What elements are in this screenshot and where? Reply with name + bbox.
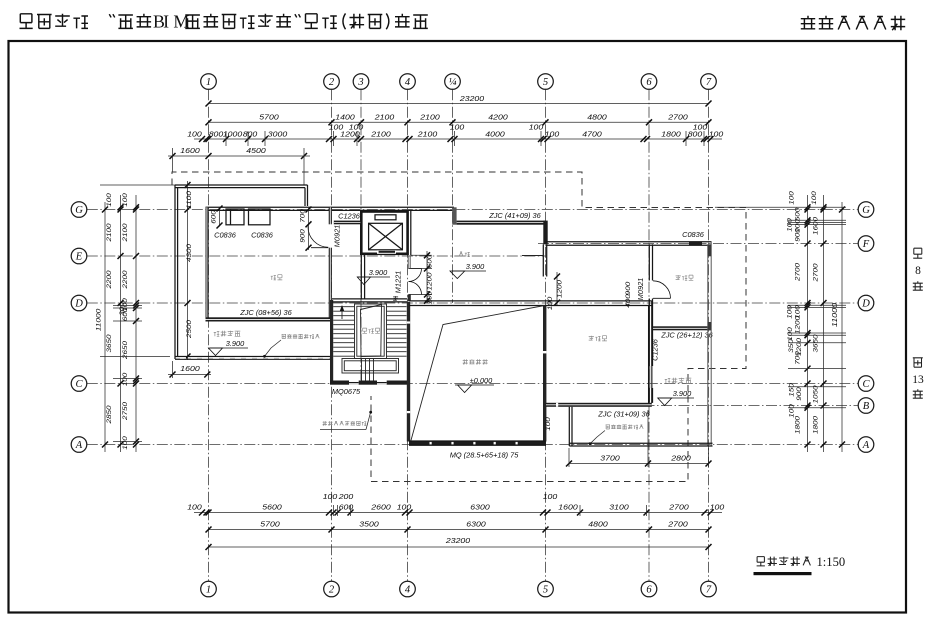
- svg-text:C0836: C0836: [214, 231, 237, 240]
- svg-text:100: 100: [710, 503, 725, 512]
- left dimension column axis spans: [120, 195, 122, 452]
- svg-text:7: 7: [706, 585, 712, 596]
- horizontal axis line A: [87, 444, 858, 446]
- right dimension column axis spans: [823, 195, 825, 452]
- svg-text:100: 100: [397, 503, 412, 512]
- window C1236 east wing: [649, 366, 651, 388]
- study north-east step wall at axis 5: [543, 221, 547, 245]
- study west wall below F: [542, 244, 544, 276]
- svg-text:3.900: 3.900: [226, 339, 245, 348]
- svg-text:1050: 1050: [813, 385, 820, 404]
- svg-text:2700: 2700: [667, 112, 688, 121]
- room label master bedroom: [589, 336, 607, 341]
- svg-text:700: 700: [795, 351, 802, 365]
- svg-text:100: 100: [547, 296, 554, 310]
- svg-text:4800: 4800: [587, 112, 606, 121]
- svg-text:800: 800: [243, 129, 258, 138]
- svg-text:100: 100: [427, 290, 434, 304]
- study interior stub line: [522, 255, 543, 257]
- svg-text:100: 100: [187, 129, 202, 138]
- window C0836 bathroom: [689, 241, 702, 245]
- axis bubble B right: [858, 398, 874, 414]
- svg-text:M1221: M1221: [394, 271, 403, 294]
- svg-text:4: 4: [405, 77, 411, 88]
- stair treads right flight: [387, 306, 407, 308]
- svg-text:ZJC (08+56) 36: ZJC (08+56) 36: [239, 308, 292, 317]
- elevator shaft walls: [361, 212, 407, 254]
- right extension lines: [788, 219, 846, 221]
- balcony label lower right: [665, 378, 692, 384]
- svg-text:C0836: C0836: [251, 231, 274, 240]
- svg-text:6: 6: [646, 77, 652, 88]
- left bottom dimension 1600: [168, 374, 211, 376]
- axis bubble D right: [858, 295, 874, 311]
- bottom dimension row total 23200: [209, 546, 709, 548]
- svg-text:100: 100: [789, 191, 796, 205]
- axis bubble 1 bottom: [201, 581, 217, 597]
- svg-text:3.900: 3.900: [466, 262, 485, 271]
- svg-text:900: 900: [795, 228, 802, 242]
- opening dimension 1200 study: [556, 272, 558, 305]
- svg-text:300: 300: [119, 302, 126, 316]
- living room level mark 0.000: [455, 384, 494, 386]
- svg-text:2100: 2100: [122, 223, 129, 243]
- horizontal axis line F: [538, 243, 858, 245]
- svg-text:2600: 2600: [370, 503, 391, 512]
- page number block: [913, 248, 922, 258]
- bedroom west wall: [206, 207, 209, 321]
- svg-text:7: 7: [706, 77, 712, 88]
- svg-text:6: 6: [646, 585, 652, 596]
- svg-text:C1236: C1236: [651, 338, 660, 361]
- bedroom south wall ZJC(08+56)36: [206, 317, 333, 321]
- svg-text:2200: 2200: [106, 270, 113, 290]
- bathroom west wall: [648, 244, 650, 280]
- horizontal axis line D: [87, 302, 858, 304]
- svg-text:3650: 3650: [813, 334, 820, 353]
- svg-text:600: 600: [427, 254, 434, 268]
- svg-text:6300: 6300: [470, 503, 489, 512]
- balcony parapet bottom edge: [175, 356, 332, 358]
- projection line label: [323, 421, 367, 425]
- curtain wall MQ south: [409, 441, 546, 445]
- svg-text:11000: 11000: [830, 303, 839, 327]
- top dimension row detail: [194, 138, 722, 140]
- room label bathroom: [676, 275, 694, 280]
- svg-text:3.900: 3.900: [673, 389, 692, 398]
- svg-text:ZJC (31+09) 36: ZJC (31+09) 36: [597, 410, 650, 419]
- stair west wall: [330, 300, 333, 384]
- svg-text:1600: 1600: [180, 146, 199, 155]
- svg-text:ZJC (26+12) 36: ZJC (26+12) 36: [660, 331, 713, 340]
- svg-text:2650: 2650: [122, 340, 129, 360]
- svg-text:400: 400: [625, 294, 632, 308]
- svg-text:4500: 4500: [246, 146, 265, 155]
- window C0836 right: [249, 209, 271, 225]
- vertical axis line 5: [545, 89, 547, 581]
- railing label top-left: [282, 334, 320, 338]
- svg-text:A: A: [862, 440, 870, 451]
- svg-text:700: 700: [300, 209, 307, 223]
- step wall at axis 1/4: [452, 207, 456, 224]
- svg-text:1200: 1200: [427, 272, 434, 291]
- room label living room void: [463, 359, 488, 364]
- axis bubble G right: [858, 202, 874, 218]
- axis bubble E left: [71, 248, 87, 264]
- svg-text:900: 900: [625, 281, 632, 295]
- door M0921 bedroom: [328, 224, 332, 247]
- svg-text:2200: 2200: [122, 270, 129, 290]
- stair up arrow: [341, 306, 343, 319]
- svg-text:11000: 11000: [96, 308, 103, 331]
- axis bubble A right: [858, 437, 874, 453]
- svg-text:D: D: [861, 299, 870, 310]
- stair landing box: [342, 359, 399, 374]
- svg-text:2100: 2100: [419, 112, 440, 121]
- svg-text:4300: 4300: [186, 243, 193, 262]
- svg-text:2700: 2700: [668, 503, 689, 512]
- corridor east wall thin 600 segment: [407, 255, 409, 268]
- stair treads left flight: [333, 306, 354, 308]
- axis bubble 5 top: [538, 74, 554, 90]
- horizontal axis line E: [87, 255, 546, 257]
- horizontal axis line G: [87, 209, 858, 211]
- vertical axis line 3: [360, 89, 362, 386]
- bedroom north wall on axis G: [206, 206, 455, 208]
- axis bubble 4 top: [400, 74, 416, 90]
- svg-text:2700: 2700: [795, 262, 802, 282]
- axis bubble C left: [71, 376, 87, 392]
- axis bubble 5 bottom: [538, 581, 554, 597]
- stair flight in well: [361, 305, 382, 357]
- svg-text:800: 800: [209, 129, 224, 138]
- svg-text:E: E: [75, 252, 83, 263]
- svg-text:1600: 1600: [558, 503, 577, 512]
- elevator counterweight: [375, 215, 396, 220]
- svg-text:2: 2: [329, 77, 335, 88]
- svg-text:2700: 2700: [813, 263, 820, 283]
- svg-text:4000: 4000: [485, 129, 504, 138]
- svg-text:1600: 1600: [180, 364, 199, 373]
- top dimension row axis spans: [209, 121, 709, 123]
- svg-text:3500: 3500: [359, 520, 378, 529]
- bottom dimension row axis spans: [209, 529, 709, 531]
- axis bubble 7 bottom: [701, 581, 717, 597]
- svg-text:1200: 1200: [795, 315, 802, 334]
- svg-text:3100: 3100: [609, 503, 628, 512]
- svg-text:23200: 23200: [445, 536, 470, 545]
- vertical axis line 1: [208, 89, 210, 581]
- svg-text:1: 1: [206, 77, 211, 88]
- horizontal axis line B: [556, 405, 858, 407]
- svg-text:M0921: M0921: [333, 225, 342, 248]
- master bedroom east wall: [648, 306, 650, 404]
- left parapet dimension chain 1100 4300 2500: [187, 181, 189, 360]
- axis bubble 2 bottom: [324, 581, 340, 597]
- svg-text:4200: 4200: [488, 112, 507, 121]
- drawing title: [757, 557, 811, 566]
- study level mark 3.900: [452, 270, 486, 272]
- double door M1221: [409, 268, 422, 270]
- svg-text:2700: 2700: [667, 520, 688, 529]
- svg-text:1600: 1600: [813, 216, 820, 235]
- wall stub below door M1221: [408, 295, 411, 302]
- svg-text:1:150: 1:150: [817, 555, 846, 569]
- svg-text:600: 600: [211, 210, 218, 224]
- svg-text:C: C: [862, 379, 870, 390]
- balcony parapet top-left: [175, 184, 308, 186]
- lobby level mark 3.900: [357, 276, 390, 278]
- svg-text:100: 100: [545, 417, 552, 431]
- dimension 600 1200 100 at M1221: [426, 251, 428, 303]
- svg-text:M0921: M0921: [636, 278, 645, 301]
- top dimension row 1600 4500: [168, 155, 310, 157]
- right dimension column total 11000: [841, 202, 843, 452]
- svg-text:100: 100: [693, 123, 708, 132]
- svg-text:23200: 23200: [459, 94, 484, 103]
- svg-text:4: 4: [405, 585, 411, 596]
- living room east wall: [543, 306, 546, 442]
- svg-text:500: 500: [795, 207, 802, 221]
- bedroom east wall: [329, 207, 332, 321]
- left extension lines: [113, 305, 142, 307]
- east outer wall on axis 7: [707, 244, 709, 446]
- axis bubble F right: [858, 236, 874, 252]
- svg-text:100: 100: [789, 404, 796, 418]
- balcony parapet lower right: [568, 407, 570, 446]
- svg-text:4700: 4700: [582, 129, 601, 138]
- svg-text:2100: 2100: [374, 112, 395, 121]
- svg-text:100: 100: [811, 191, 818, 205]
- svg-text:G: G: [862, 205, 870, 216]
- svg-text:350: 350: [788, 339, 795, 353]
- axis bubble 4 bottom: [400, 581, 416, 597]
- header society name: [801, 16, 905, 30]
- svg-text:5700: 5700: [260, 520, 279, 529]
- svg-text:5: 5: [543, 77, 548, 88]
- svg-text:150: 150: [789, 383, 796, 397]
- svg-text:3000: 3000: [268, 129, 287, 138]
- svg-text:MQ (28.5+65+18) 75: MQ (28.5+65+18) 75: [450, 451, 520, 460]
- stair label down: [393, 296, 398, 300]
- vertical axis line 4: [407, 89, 409, 581]
- svg-text:±0.000: ±0.000: [470, 376, 493, 385]
- svg-text:D: D: [74, 299, 83, 310]
- svg-text:I: I: [163, 12, 169, 32]
- bathroom south wall ZJC(26+12)36: [653, 326, 712, 330]
- void diagonal lines: [411, 306, 545, 442]
- elevator door: [377, 250, 396, 253]
- axis bubble D left: [71, 295, 87, 311]
- svg-text:3: 3: [357, 77, 363, 88]
- window C1236 at elevator lobby: [334, 221, 361, 225]
- svg-text:900: 900: [300, 229, 307, 243]
- dimension 700 900 at door: [308, 208, 310, 250]
- axis bubble 1 top: [201, 74, 217, 90]
- svg-text:1400: 1400: [335, 112, 354, 121]
- window wall ZJC(41+09)36: [457, 221, 546, 225]
- svg-text:100: 100: [450, 123, 465, 132]
- svg-text:2850: 2850: [106, 405, 113, 425]
- dimension 600 at window: [219, 208, 221, 227]
- bathroom north wall on axis F: [649, 241, 712, 243]
- bottom dimension row detail: [194, 512, 722, 514]
- svg-text:100: 100: [709, 129, 724, 138]
- svg-text:1800: 1800: [795, 415, 802, 434]
- upper floor projection dashed outline: [172, 172, 746, 482]
- svg-text:5700: 5700: [259, 112, 278, 121]
- svg-text:1: 1: [206, 585, 211, 596]
- room label study: [459, 252, 470, 257]
- svg-text:5600: 5600: [262, 503, 281, 512]
- svg-text:ZJC (41+09) 36: ZJC (41+09) 36: [488, 211, 541, 220]
- door M0921 bathroom: [653, 297, 671, 299]
- axis bubble C right: [858, 376, 874, 392]
- vertical axis line 7: [708, 89, 710, 581]
- svg-text:1100: 1100: [186, 190, 193, 209]
- svg-text:13: 13: [912, 374, 924, 386]
- svg-text:A: A: [75, 440, 83, 451]
- stair south wall MQ0675: [330, 381, 410, 385]
- svg-text:6300: 6300: [466, 520, 485, 529]
- svg-text:1800: 1800: [813, 415, 820, 434]
- svg-text:C: C: [75, 379, 83, 390]
- svg-text:3.900: 3.900: [369, 268, 388, 277]
- svg-text:C0836: C0836: [682, 230, 705, 239]
- svg-text:100: 100: [187, 503, 202, 512]
- svg-text:900: 900: [796, 387, 803, 401]
- svg-text:100: 100: [122, 372, 129, 386]
- axis bubble A left: [71, 437, 87, 453]
- elevator cab with cross: [369, 223, 403, 250]
- top dimension row total 23200: [209, 103, 709, 105]
- svg-text:MQ0675: MQ0675: [332, 387, 361, 396]
- svg-text:2750: 2750: [122, 401, 129, 421]
- balcony level mark 3.900 lower right: [658, 397, 694, 399]
- svg-text:B: B: [863, 401, 870, 412]
- left dimension column detail: [135, 195, 137, 452]
- svg-text:C1236: C1236: [338, 212, 361, 221]
- vertical axis line 2: [331, 89, 333, 581]
- living room west wall: [407, 302, 410, 442]
- east wing wall below window: [648, 388, 650, 403]
- svg-text:F: F: [862, 239, 870, 250]
- svg-text:1800: 1800: [661, 129, 680, 138]
- svg-text:2500: 2500: [186, 319, 193, 339]
- left dimension column total 11000: [104, 202, 106, 452]
- svg-text:3700: 3700: [600, 453, 619, 462]
- stair landing railing lines: [361, 359, 363, 381]
- master bedroom south wall ZJC(31+09)36: [546, 403, 652, 407]
- room label bedroom: [271, 275, 283, 280]
- svg-text:100: 100: [106, 193, 113, 207]
- axis bubble 6 top: [641, 74, 657, 90]
- axis bubble 2 top: [324, 74, 340, 90]
- svg-text:¼: ¼: [449, 77, 457, 88]
- living room north wall on axis D: [409, 300, 546, 302]
- top extension lines: [225, 131, 227, 146]
- svg-text:100: 100: [543, 492, 558, 501]
- vertical axis line 6: [648, 89, 650, 581]
- svg-text:5: 5: [543, 585, 548, 596]
- svg-text:2: 2: [329, 585, 335, 596]
- room label stairwell: [362, 328, 379, 333]
- svg-text:100: 100: [545, 129, 560, 138]
- svg-text:100: 100: [787, 327, 794, 341]
- right dimension column detail: [807, 195, 809, 452]
- axis bubble 6 bottom: [641, 581, 657, 597]
- elevator west wall extension: [360, 254, 362, 300]
- bottom right dimension 3700 2800: [569, 463, 709, 465]
- axis bubble 3 top: [353, 74, 369, 90]
- bottom extension lines: [333, 505, 335, 516]
- svg-text:4800: 4800: [588, 520, 607, 529]
- svg-text:2100: 2100: [106, 223, 113, 243]
- svg-text:2100: 2100: [417, 129, 438, 138]
- svg-text:8: 8: [915, 265, 921, 277]
- svg-text:1200: 1200: [557, 279, 564, 298]
- window C0836 left: [226, 209, 244, 225]
- wall on axis F study to bathroom: [546, 241, 650, 243]
- svg-text:100: 100: [323, 492, 338, 501]
- stair north boundary: [332, 298, 407, 300]
- vertical axis line 1/4: [452, 89, 454, 303]
- master bedroom north wall on axis D: [546, 300, 652, 302]
- svg-text:600: 600: [339, 503, 354, 512]
- svg-text:100: 100: [122, 193, 129, 207]
- axis bubble G left: [71, 202, 87, 218]
- balcony label top-left: [214, 331, 241, 337]
- svg-text:3650: 3650: [106, 334, 113, 353]
- svg-text:100: 100: [122, 436, 129, 450]
- svg-text:2100: 2100: [370, 129, 391, 138]
- axis bubble 1/4 top: [445, 74, 461, 90]
- svg-text:100: 100: [787, 305, 794, 319]
- corridor east wall segment: [407, 211, 409, 256]
- stair well railing box: [355, 304, 387, 359]
- horizontal axis line C: [87, 383, 858, 385]
- svg-text:100: 100: [529, 123, 544, 132]
- railing label lower right: [606, 425, 644, 429]
- svg-text:G: G: [75, 205, 83, 216]
- svg-text:200: 200: [338, 492, 354, 501]
- axis bubble 7 top: [701, 74, 717, 90]
- balcony level mark 3.900 top-left: [210, 347, 248, 349]
